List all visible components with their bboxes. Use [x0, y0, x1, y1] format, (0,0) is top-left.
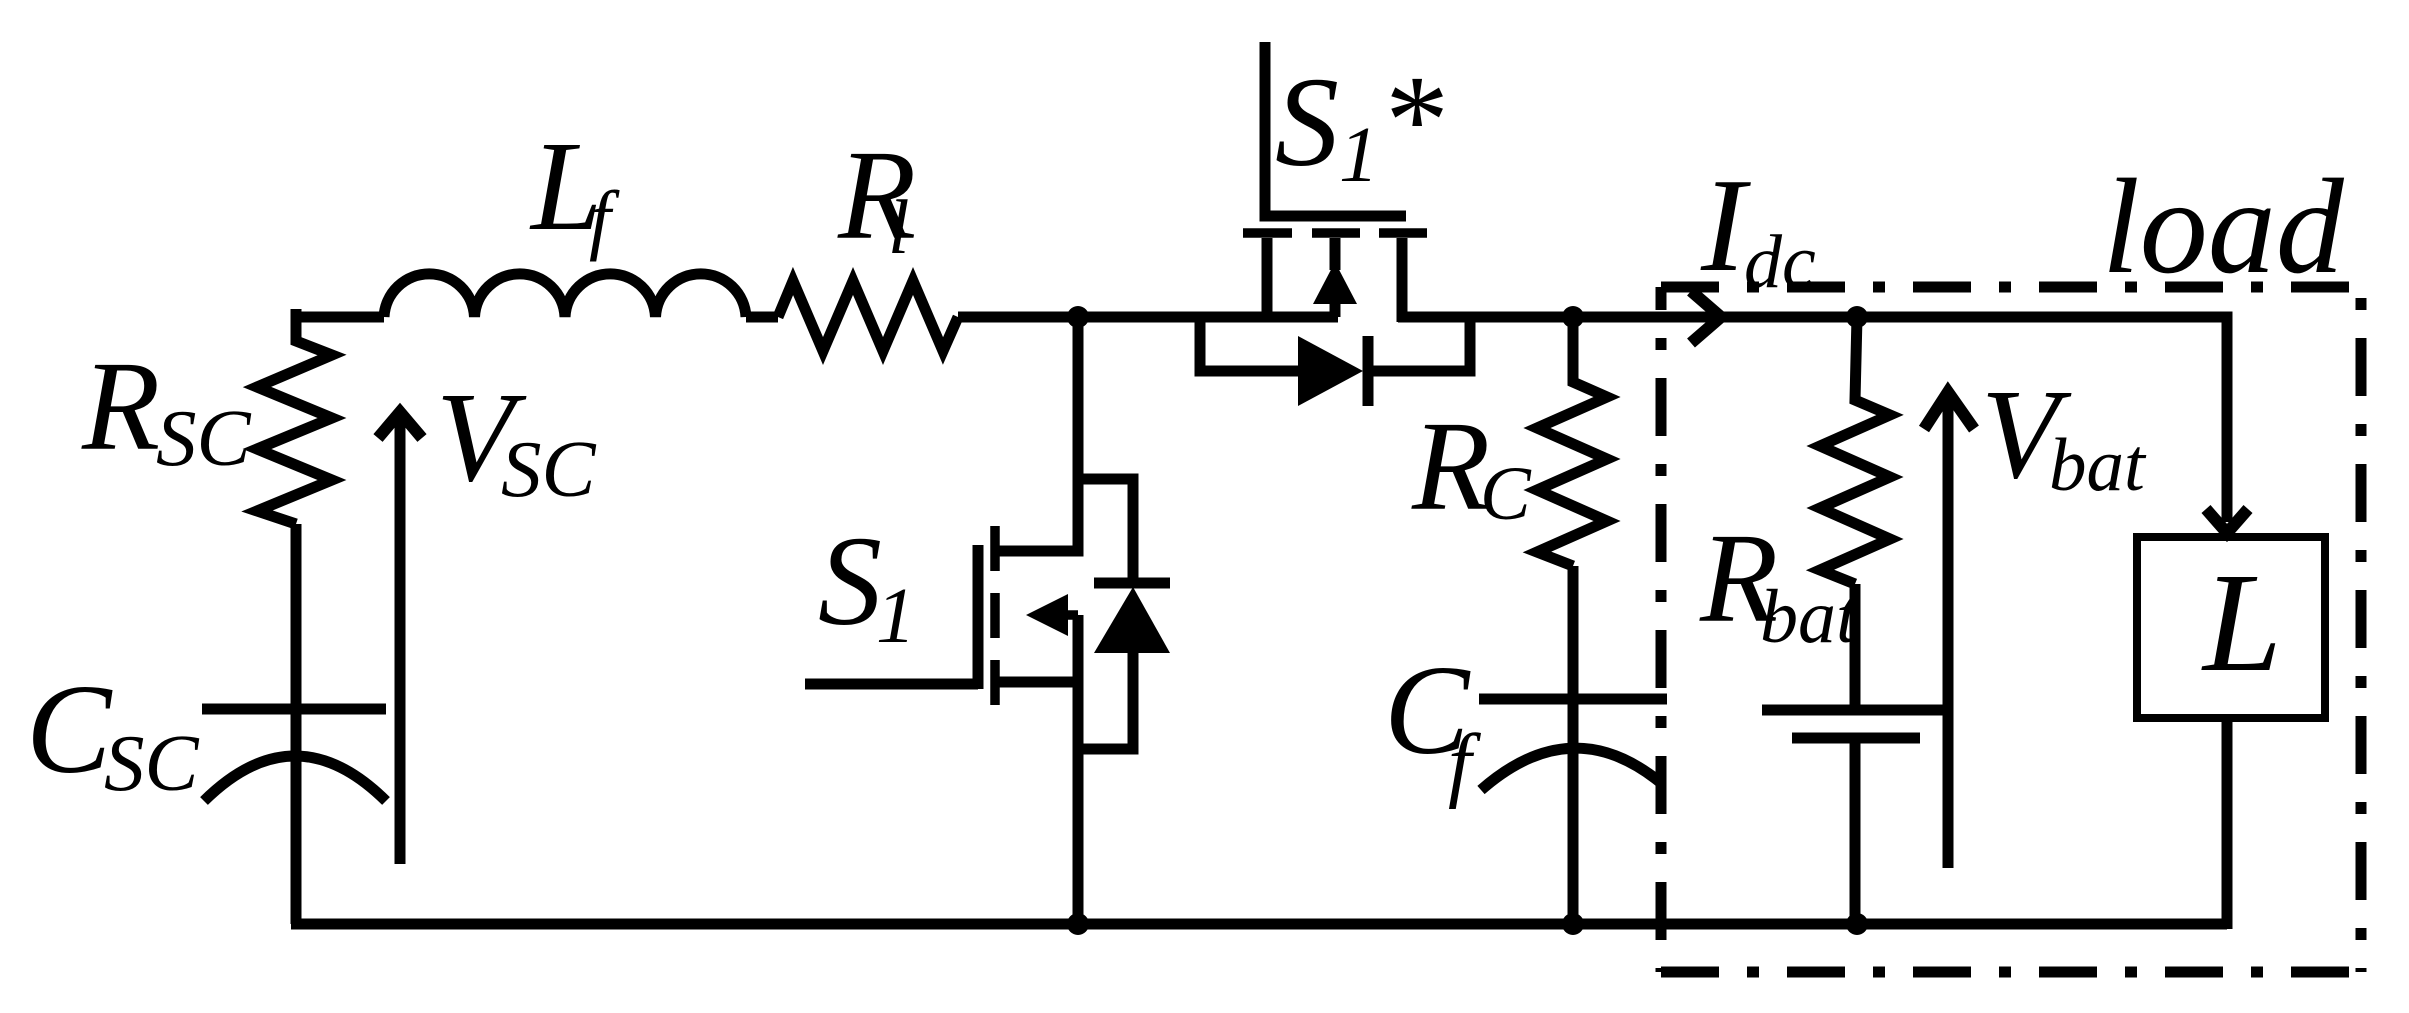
transistor S1 gate bar	[973, 545, 984, 689]
wire battery to bottom	[1850, 738, 1861, 924]
svg-text:*: *	[1379, 49, 1443, 191]
transistor S1* body stub	[1330, 238, 1341, 270]
resistor RC	[1537, 317, 1607, 566]
voltage arrow VSC	[395, 414, 406, 864]
wire RC to Cf	[1568, 566, 1579, 924]
bottom wire	[291, 919, 2227, 930]
svg-text:R: R	[1411, 395, 1490, 537]
capacitor Cf top plate	[1479, 694, 1667, 705]
transistor S1 source lead down	[1073, 615, 1084, 924]
svg-text:S: S	[818, 510, 882, 652]
battery plate long	[1762, 705, 1950, 716]
load boundary dash-dot bottom	[1661, 967, 2361, 978]
wire L box to bottom	[2222, 718, 2233, 929]
diode D1 triangle	[1094, 587, 1170, 653]
node F junction dot battery bottom	[1846, 913, 1868, 935]
inductor Lf	[384, 274, 746, 317]
transistor S1 drain lead	[999, 317, 1078, 551]
transistor S1 source stub	[999, 677, 1078, 688]
transistor S1* gate lead	[1265, 42, 1406, 216]
load boundary dash-dot right	[2356, 287, 2367, 972]
transistor S1* body arrow	[1313, 262, 1357, 304]
wire RSC to bottom	[291, 524, 302, 924]
svg-text:load: load	[2102, 152, 2345, 302]
capacitor CSC top plate	[202, 704, 386, 715]
transistor S1 channel bar	[990, 526, 1000, 705]
wire Rl to S1* drain	[958, 312, 1338, 323]
node A junction dot left	[1067, 306, 1089, 328]
resistor Rl	[778, 281, 958, 351]
load box L	[2137, 537, 2325, 718]
wire top-left horizontal	[296, 312, 384, 323]
transistor S1 gate lead	[805, 679, 978, 690]
voltage arrow Vbat	[1943, 394, 1954, 868]
node E junction dot Cf bottom	[1562, 913, 1584, 935]
current arrow Idc	[1691, 291, 1721, 343]
load boundary dash-dot left	[1656, 287, 1667, 972]
transistor S1* channel bar	[1243, 228, 1427, 238]
node C junction dot Rbat top	[1846, 306, 1868, 328]
svg-text:bat: bat	[2049, 424, 2147, 507]
svg-text:L: L	[2201, 543, 2282, 701]
svg-text:f: f	[589, 175, 620, 262]
svg-text:1: 1	[1339, 112, 1379, 199]
diode D2 cathode bar	[1363, 336, 1374, 406]
svg-text:R: R	[81, 335, 160, 477]
battery plate short	[1792, 733, 1920, 744]
transistor S1 body arrow	[1026, 594, 1068, 636]
diode D2 anode lead	[1200, 322, 1298, 371]
transistor S1 body stub	[1058, 610, 1078, 620]
diode D2 triangle	[1298, 336, 1363, 406]
node D junction dot S1 bottom	[1067, 913, 1089, 935]
load boundary dash-dot top	[1661, 282, 2361, 293]
svg-text:C: C	[1480, 452, 1532, 536]
wire Rbat to battery	[1850, 584, 1861, 710]
svg-text:S: S	[1275, 51, 1339, 193]
load arrow into L box	[2206, 509, 2248, 533]
wire S1* source to right corner, down to load arrow	[1398, 317, 2227, 522]
svg-text:SC: SC	[501, 424, 597, 514]
svg-text:C: C	[26, 658, 113, 800]
capacitor Cf curved plate	[1481, 748, 1661, 790]
svg-text:dc: dc	[1744, 220, 1816, 304]
node B junction dot RC top	[1562, 306, 1584, 328]
svg-text:bat: bat	[1760, 575, 1859, 659]
svg-text:SC: SC	[104, 718, 200, 808]
svg-text:l: l	[888, 184, 909, 270]
diode D1 top jog	[1078, 479, 1133, 583]
svg-text:f: f	[1448, 717, 1482, 810]
diode D2 cathode lead	[1368, 322, 1470, 371]
wire inductor to Rl	[746, 312, 778, 323]
resistor RSC	[257, 309, 332, 524]
transistor S1* source stub	[1397, 238, 1408, 322]
capacitor CSC curved plate	[204, 756, 386, 801]
transistor S1* drain stub	[1262, 238, 1273, 317]
resistor Rbat	[1820, 317, 1890, 584]
svg-text:SC: SC	[156, 393, 252, 483]
diode D1 anode lead	[1078, 650, 1133, 749]
diode D1 cathode bar	[1094, 578, 1170, 589]
svg-text:1: 1	[876, 573, 916, 660]
